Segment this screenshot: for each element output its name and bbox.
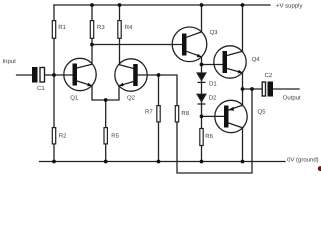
svg-text:R5: R5	[111, 133, 119, 140]
svg-text:0V (ground): 0V (ground)	[287, 157, 319, 164]
svg-text:R6: R6	[205, 133, 213, 140]
svg-text:Output: Output	[283, 95, 301, 102]
svg-text:C1: C1	[37, 85, 45, 92]
svg-text:R8: R8	[181, 110, 189, 117]
svg-text:R4: R4	[125, 24, 133, 31]
svg-text:Q1: Q1	[70, 94, 79, 101]
svg-text:D2: D2	[209, 95, 217, 102]
svg-text:R7: R7	[145, 109, 153, 116]
svg-text:Q2: Q2	[127, 95, 136, 102]
svg-text:Q5: Q5	[258, 109, 267, 116]
svg-text:R1: R1	[58, 24, 66, 31]
svg-text:D1: D1	[209, 81, 217, 88]
svg-text:R2: R2	[59, 133, 67, 140]
svg-text:+V supply: +V supply	[276, 2, 303, 9]
svg-text:R3: R3	[97, 24, 105, 31]
svg-text:Input: Input	[3, 58, 17, 65]
svg-text:Q4: Q4	[252, 56, 261, 63]
svg-text:C2: C2	[265, 72, 273, 79]
svg-text:Q3: Q3	[210, 29, 219, 36]
